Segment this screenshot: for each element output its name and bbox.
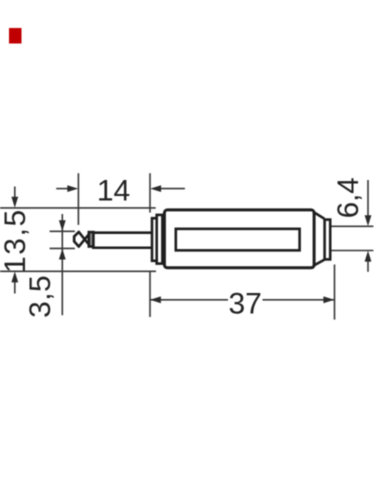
svg-text:37: 37 bbox=[229, 288, 262, 321]
left collar ring 2 (larger) bbox=[157, 215, 163, 264]
dim 13,5: lower tail bbox=[14, 281, 16, 294]
dim 14: left arrowhead (points right) bbox=[67, 185, 78, 192]
tip insulator ring (gray) bbox=[89, 232, 94, 246]
dim 13,5: top arrowhead (points down) bbox=[11, 197, 18, 208]
dim 6,4: bottom arrowhead (points up) bbox=[365, 251, 372, 262]
dim 13,5: upper tail bbox=[14, 187, 16, 199]
dim 37: left arrowhead (points left) bbox=[150, 296, 161, 303]
dim 14: left tail bbox=[56, 188, 68, 190]
dim 14: right arrowhead (points left) bbox=[150, 185, 161, 192]
dim 14: right tail bbox=[161, 188, 185, 190]
left collar ring 1 (smaller) bbox=[152, 218, 157, 261]
dim 3,5: vertical dimension line bbox=[61, 214, 63, 315]
dim 13,5: bottom arrowhead (points up) bbox=[11, 272, 18, 283]
dim 13,5: bottom extension line bbox=[0, 270, 156, 272]
dim 37: left extension line (shared) bbox=[149, 271, 151, 317]
right taper bottom edge bbox=[315, 260, 325, 266]
plug shaft bbox=[92, 233, 153, 248]
dim 6,4: upper tail bbox=[367, 180, 369, 216]
dim 14: right extension line upper bbox=[149, 173, 151, 212]
dim 37: right extension line bbox=[334, 265, 336, 320]
dim 6,4: lower tail bbox=[367, 261, 369, 272]
dim 3,5: upper arrowhead (points down) bbox=[59, 220, 66, 231]
right taper top edge bbox=[315, 213, 325, 219]
red marker square (top-left) bbox=[9, 28, 22, 44]
dim 6,4: top arrowhead (points down) bbox=[365, 215, 372, 226]
plug tip (bowtie cone) bbox=[74, 232, 88, 247]
main body bbox=[164, 210, 314, 268]
dim 37: dimension line left part bbox=[150, 299, 228, 301]
dim 3,5: bottom extension line bbox=[50, 247, 75, 249]
dim 3,5: lower arrowhead (points up) bbox=[59, 249, 66, 260]
svg-text:14: 14 bbox=[97, 174, 130, 207]
dim 14: left extension line bbox=[77, 173, 79, 225]
svg-text:6,4: 6,4 bbox=[332, 177, 365, 218]
svg-text:3,5: 3,5 bbox=[24, 275, 57, 318]
dim 6,4: top extension line bbox=[329, 225, 373, 227]
right collar ring bbox=[325, 220, 331, 260]
dim 37: right arrowhead (points right) bbox=[323, 296, 334, 303]
dim 13,5: top extension line bbox=[0, 207, 156, 209]
dim 3,5: top extension line bbox=[50, 230, 75, 232]
svg-text:13,5: 13,5 bbox=[0, 208, 32, 273]
label recess rectangle bbox=[176, 229, 300, 251]
dim 37: dimension line right part bbox=[263, 299, 335, 301]
dim 6,4: bottom extension line bbox=[329, 250, 373, 252]
